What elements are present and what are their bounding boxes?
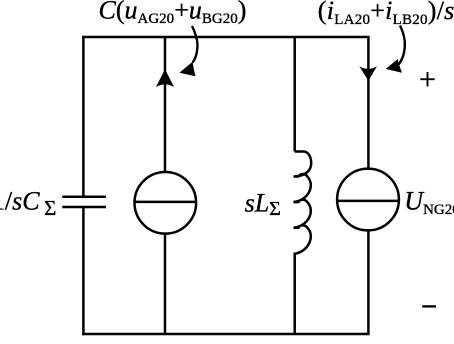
- wire: branch 2 upper segment: [164, 37, 167, 172]
- wire: top horizontal: [82, 36, 369, 39]
- inductor sL_Sigma coil: [294, 152, 312, 255]
- arrowhead: branch 2 current direction (up): [156, 69, 174, 87]
- current source I1 bar: [135, 201, 197, 204]
- current source I1 circle: [135, 172, 197, 234]
- arrowhead: curved arrow 2 tip: [386, 59, 402, 73]
- arrowhead: branch 4 current direction (down): [359, 66, 377, 81]
- wire: left branch upper segment: [82, 36, 85, 197]
- capacitor C (1/sC_Sigma) plates: [62, 196, 106, 199]
- wire: bottom horizontal: [82, 333, 369, 336]
- arrowhead: curved arrow 1 tip: [179, 62, 195, 76]
- wire: branch 3 upper segment: [293, 37, 296, 151]
- wire: left branch lower segment: [82, 207, 85, 335]
- curved arrow from (i)/s label: [399, 26, 405, 65]
- minus polarity sign: [422, 305, 436, 307]
- wire: branch 4 (right) upper segment: [367, 37, 370, 169]
- wire: branch 3 lower segment: [293, 255, 296, 334]
- wire: branch 2 lower segment: [164, 234, 167, 334]
- svg-text:sLΣ: sLΣ: [245, 188, 281, 220]
- svg-text:1/sCΣ: 1/sCΣ: [0, 187, 56, 220]
- curved arrow from C(u) label: [192, 26, 197, 63]
- svg-text:C(uAG20+uBG20): C(uAG20+uBG20): [99, 0, 247, 27]
- current source U_NG20 circle: [337, 169, 399, 231]
- svg-text:UNG20: UNG20: [404, 186, 454, 218]
- current source U_NG20 bar: [337, 200, 399, 203]
- wire: branch 4 lower segment: [367, 230, 370, 334]
- svg-text:(iLA20+iLB20)/s: (iLA20+iLB20)/s: [318, 0, 454, 28]
- plus polarity sign: [420, 72, 434, 86]
